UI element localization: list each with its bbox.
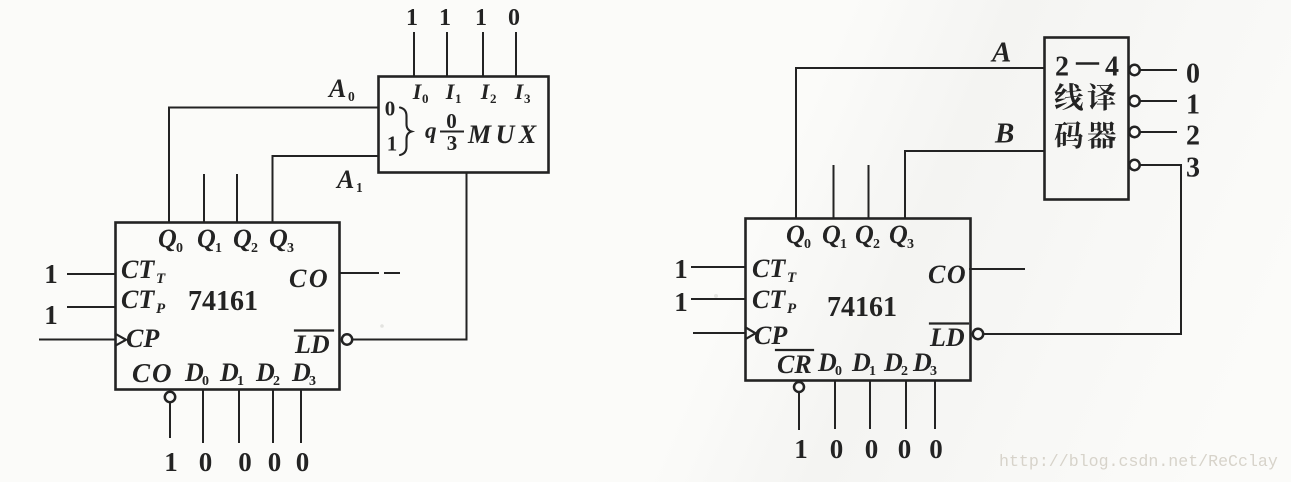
svg-text:CO: CO bbox=[132, 358, 174, 388]
wire D0 input U1 bbox=[202, 390, 204, 443]
clock triangle U3 bbox=[747, 328, 756, 339]
mux U2 box bbox=[379, 77, 549, 173]
svg-text:2: 2 bbox=[251, 241, 258, 256]
scan speck right bbox=[714, 294, 718, 298]
svg-text:CP: CP bbox=[754, 321, 788, 350]
svg-text:B: B bbox=[994, 118, 1014, 150]
wire CP clock input U1 bbox=[40, 339, 115, 341]
svg-text:2: 2 bbox=[1186, 121, 1200, 152]
svg-text:0: 0 bbox=[446, 109, 457, 133]
svg-text:0: 0 bbox=[238, 447, 252, 477]
svg-text:A: A bbox=[990, 37, 1011, 69]
svg-text:LD: LD bbox=[294, 330, 330, 359]
svg-text:2: 2 bbox=[490, 91, 497, 106]
svg-text:0: 0 bbox=[865, 434, 879, 464]
wire D1 input U3 bbox=[869, 381, 871, 429]
svg-text:1: 1 bbox=[869, 364, 876, 379]
wire D3 input U1 bbox=[300, 390, 302, 443]
wire CR input U3 bbox=[798, 392, 800, 429]
svg-text:q: q bbox=[425, 118, 437, 143]
svg-text:3: 3 bbox=[907, 237, 914, 252]
wire CO output U1 bbox=[340, 272, 378, 274]
bubble decoder output 1 bbox=[1129, 96, 1139, 106]
svg-text:CT: CT bbox=[121, 255, 155, 284]
svg-text:Q: Q bbox=[822, 220, 841, 249]
svg-text:0: 0 bbox=[202, 374, 209, 389]
svg-text:3: 3 bbox=[447, 131, 458, 155]
svg-text:CO: CO bbox=[928, 260, 967, 289]
svg-text:http://blog.csdn.net/ReCclay: http://blog.csdn.net/ReCclay bbox=[999, 452, 1278, 471]
svg-text:LD: LD bbox=[929, 323, 965, 352]
svg-text:0: 0 bbox=[176, 241, 183, 256]
svg-text:2: 2 bbox=[901, 364, 908, 379]
svg-text:D: D bbox=[219, 358, 239, 387]
svg-text:1: 1 bbox=[674, 287, 688, 317]
svg-text:1: 1 bbox=[237, 374, 244, 389]
clock triangle U1 bbox=[117, 335, 127, 346]
svg-text:P: P bbox=[787, 301, 797, 317]
wire decoder output 0 bbox=[1140, 69, 1176, 71]
bubble decoder output 0 bbox=[1129, 65, 1139, 75]
svg-text:D: D bbox=[291, 358, 311, 387]
bubble decoder output 2 bbox=[1129, 127, 1139, 137]
svg-text:1: 1 bbox=[44, 300, 58, 330]
svg-text:1: 1 bbox=[44, 259, 58, 289]
svg-text:0: 0 bbox=[385, 97, 396, 121]
svg-text:1: 1 bbox=[164, 447, 178, 477]
svg-text:1: 1 bbox=[356, 180, 363, 195]
svg-text:3: 3 bbox=[930, 364, 937, 379]
svg-text:2: 2 bbox=[1055, 52, 1069, 83]
svg-text:74161: 74161 bbox=[188, 286, 258, 317]
label ma 码 bbox=[1055, 121, 1083, 149]
wire D3 input U3 bbox=[934, 381, 936, 429]
svg-text:CO: CO bbox=[289, 264, 330, 293]
svg-text:74161: 74161 bbox=[827, 292, 897, 323]
svg-text:0: 0 bbox=[830, 434, 844, 464]
svg-text:3: 3 bbox=[1186, 153, 1200, 184]
wire A from Q0 U3 to decoder bbox=[796, 68, 1044, 218]
svg-text:0: 0 bbox=[422, 91, 429, 106]
svg-text:A: A bbox=[327, 74, 346, 103]
svg-text:1: 1 bbox=[475, 5, 487, 31]
wire stub Q2 bbox=[236, 175, 238, 222]
svg-text:CT: CT bbox=[121, 285, 155, 314]
wire MUX data input I2 bbox=[482, 33, 484, 76]
bubble LD U3 bbox=[973, 329, 983, 339]
svg-text:4: 4 bbox=[1105, 52, 1119, 83]
wire CR input U1 bbox=[169, 403, 171, 438]
wire D0 input U3 bbox=[834, 381, 836, 429]
svg-text:0: 0 bbox=[1186, 59, 1200, 90]
svg-text:0: 0 bbox=[268, 447, 282, 477]
bubble LD U1 bbox=[342, 334, 352, 344]
brace select group bbox=[400, 108, 412, 156]
svg-text:0: 0 bbox=[929, 434, 943, 464]
svg-text:Q: Q bbox=[889, 220, 908, 249]
svg-text:MUX: MUX bbox=[467, 120, 541, 149]
wire MUX output Y to LD bbox=[353, 173, 467, 340]
svg-text:3: 3 bbox=[309, 374, 316, 389]
wire D1 input U1 bbox=[238, 390, 240, 443]
wire stub Q2 U3 bbox=[868, 166, 870, 218]
wire stub Q1 bbox=[203, 175, 205, 222]
svg-text:CR: CR bbox=[777, 350, 812, 379]
svg-text:0: 0 bbox=[898, 434, 912, 464]
wire stub Q1 U3 bbox=[833, 166, 835, 218]
svg-text:1: 1 bbox=[674, 254, 688, 284]
svg-text:1: 1 bbox=[387, 132, 398, 156]
wire MUX data input I1 bbox=[446, 33, 448, 76]
svg-text:D: D bbox=[883, 348, 903, 377]
fraction bar bbox=[441, 131, 463, 133]
wire decoder output 1 bbox=[1140, 100, 1176, 102]
svg-text:0: 0 bbox=[199, 447, 213, 477]
wire D2 input U1 bbox=[272, 390, 274, 443]
svg-text:3: 3 bbox=[524, 91, 531, 106]
svg-text:3: 3 bbox=[287, 241, 294, 256]
svg-text:1: 1 bbox=[215, 241, 222, 256]
wire CO output dash U1 bbox=[385, 272, 399, 274]
svg-text:Q: Q bbox=[786, 220, 805, 249]
svg-text:0: 0 bbox=[804, 237, 811, 252]
wire A0 from Q0 to MUX select 0 bbox=[169, 108, 378, 223]
svg-text:1: 1 bbox=[406, 5, 418, 31]
svg-text:0: 0 bbox=[348, 89, 355, 104]
svg-text:D: D bbox=[912, 348, 932, 377]
label qi 器 bbox=[1088, 121, 1116, 148]
svg-text:CP: CP bbox=[126, 324, 160, 353]
svg-text:1: 1 bbox=[794, 434, 808, 464]
wire constant 1 to CTT U3 bbox=[692, 266, 745, 268]
wire MUX data input I0 bbox=[413, 33, 415, 76]
wire decoder output 2 bbox=[1140, 131, 1176, 133]
svg-text:0: 0 bbox=[508, 5, 520, 31]
bubble decoder output 3 bbox=[1129, 160, 1139, 170]
svg-text:Q: Q bbox=[158, 224, 177, 253]
svg-text:D: D bbox=[184, 358, 204, 387]
svg-text:P: P bbox=[156, 301, 166, 317]
wire B from Q3 U3 to decoder bbox=[905, 151, 1044, 218]
wire constant 1 to CTT U1 bbox=[68, 273, 115, 275]
svg-text:2: 2 bbox=[273, 374, 280, 389]
svg-text:1: 1 bbox=[840, 237, 847, 252]
svg-text:0: 0 bbox=[835, 364, 842, 379]
svg-text:D: D bbox=[255, 358, 275, 387]
bubble CR U3 bbox=[794, 382, 804, 392]
svg-text:D: D bbox=[851, 348, 871, 377]
svg-text:Q: Q bbox=[197, 224, 216, 253]
svg-text:Q: Q bbox=[855, 220, 874, 249]
svg-text:Q: Q bbox=[269, 224, 288, 253]
wire CP clock input U3 bbox=[694, 332, 745, 334]
svg-text:1: 1 bbox=[455, 91, 462, 106]
wire A1 from Q3 to MUX select 1 bbox=[273, 156, 379, 222]
decoder U4 2-4 box bbox=[1045, 38, 1129, 200]
svg-text:D: D bbox=[817, 348, 837, 377]
wire decoder output 3 to LD U3 bbox=[984, 165, 1181, 334]
svg-text:T: T bbox=[156, 271, 166, 287]
wire constant 1 to CTP U3 bbox=[692, 298, 745, 300]
svg-text:2: 2 bbox=[873, 237, 880, 252]
counter U1 74161 box bbox=[116, 223, 340, 390]
svg-text:0: 0 bbox=[296, 447, 310, 477]
label xian 线 bbox=[1055, 83, 1083, 111]
svg-text:Q: Q bbox=[233, 224, 252, 253]
wire MUX data input I3 bbox=[515, 33, 517, 76]
wire CO output U3 bbox=[970, 268, 1024, 270]
counter U3 74161 box bbox=[746, 219, 971, 381]
svg-text:1: 1 bbox=[1186, 90, 1200, 121]
bubble CR U1 bbox=[165, 392, 175, 402]
svg-text:1: 1 bbox=[439, 5, 451, 31]
svg-text:CT: CT bbox=[752, 254, 786, 283]
wire D2 input U3 bbox=[905, 381, 907, 429]
svg-text:A: A bbox=[335, 165, 354, 194]
wire constant 1 to CTP U1 bbox=[68, 306, 115, 308]
svg-text:CT: CT bbox=[752, 285, 786, 314]
svg-text:T: T bbox=[787, 270, 797, 286]
label yi 译 bbox=[1088, 83, 1116, 110]
scan speck center bbox=[380, 324, 384, 328]
